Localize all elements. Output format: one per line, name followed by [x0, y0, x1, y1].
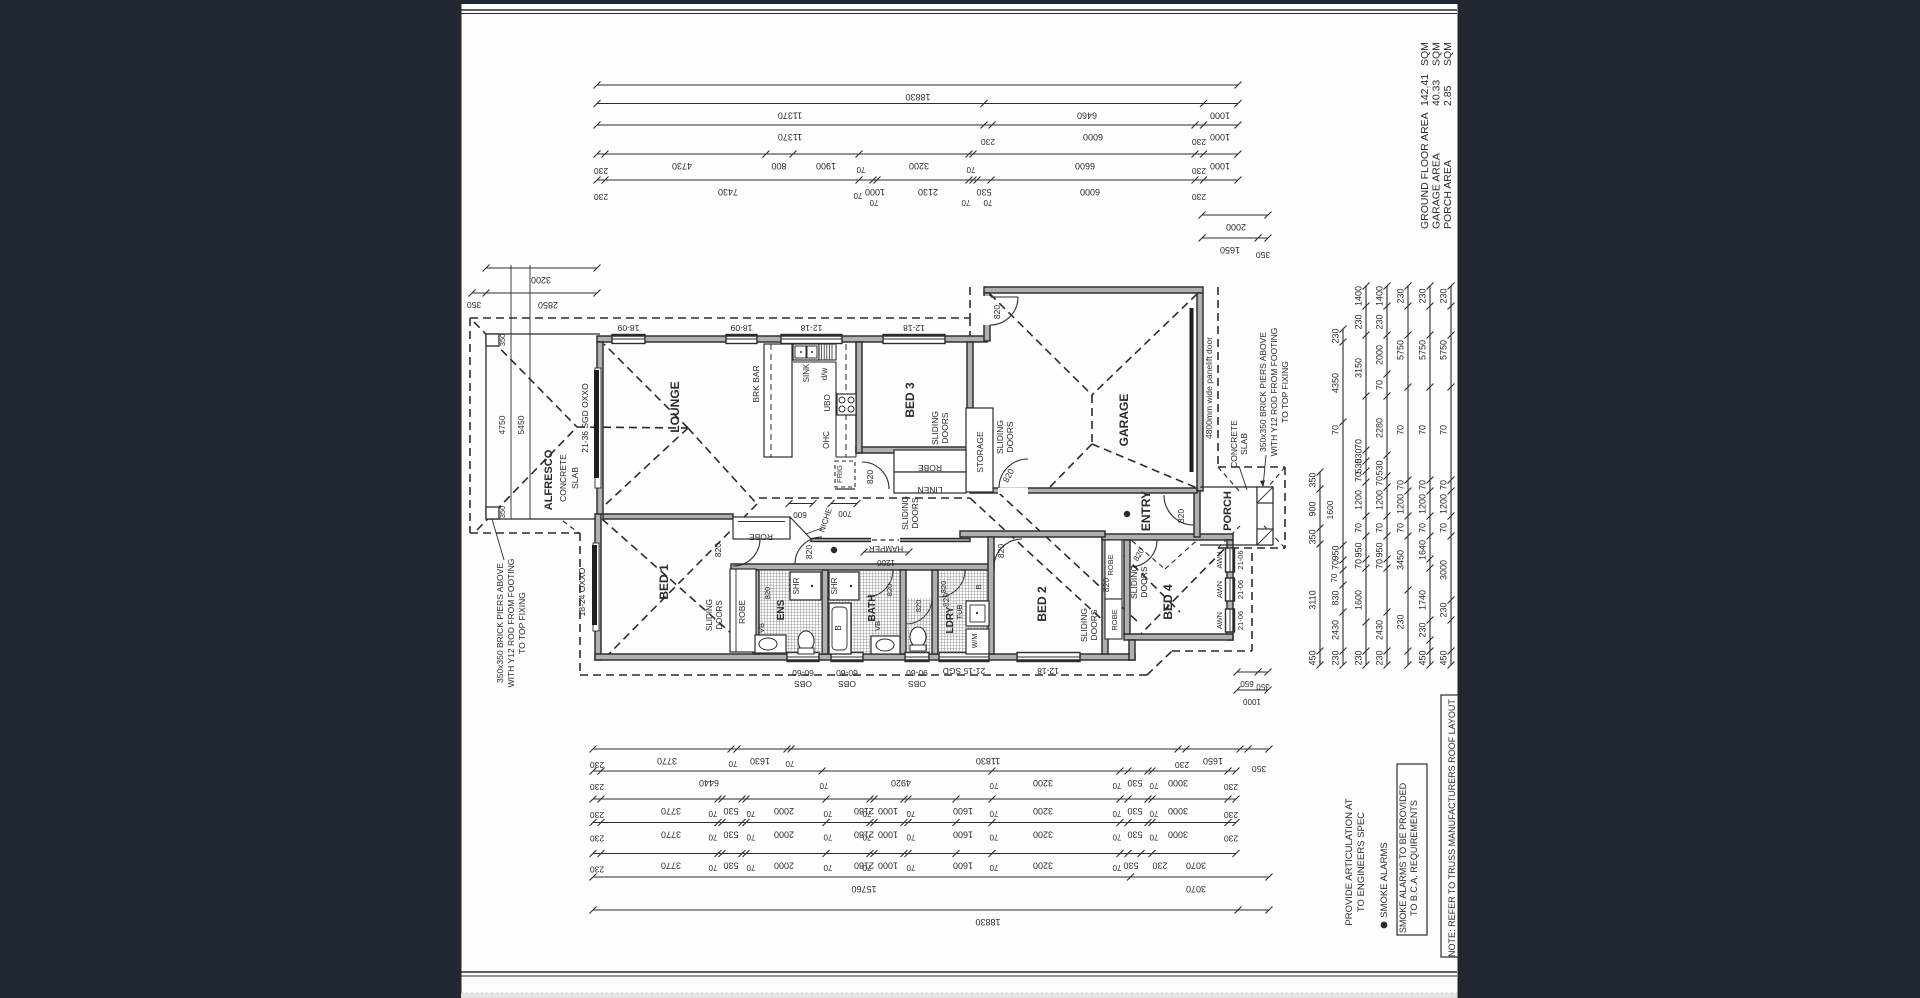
svg-text:530: 530 — [1127, 778, 1142, 788]
svg-text:3110: 3110 — [1308, 590, 1318, 609]
svg-text:12-18: 12-18 — [800, 323, 822, 333]
svg-text:70: 70 — [1354, 439, 1364, 449]
entry east wall — [1194, 491, 1200, 537]
svg-text:12-18: 12-18 — [1037, 666, 1059, 676]
bed4 door 820 — [1130, 540, 1157, 567]
eave outline dashed — [470, 317, 970, 319]
svg-text:230: 230 — [1331, 328, 1341, 343]
hamper dim — [864, 551, 909, 553]
svg-text:1600: 1600 — [1354, 590, 1364, 610]
svg-text:12-18: 12-18 — [903, 323, 925, 333]
svg-text:1400: 1400 — [1375, 286, 1385, 306]
bed2 door 820 — [994, 539, 1022, 567]
svg-text:15760: 15760 — [851, 884, 876, 894]
bed3 door 820 — [862, 462, 889, 489]
svg-text:3000: 3000 — [1168, 830, 1188, 840]
svg-text:3770: 3770 — [661, 806, 681, 816]
svg-text:820: 820 — [885, 584, 894, 597]
svg-text:OHC: OHC — [822, 431, 831, 449]
svg-text:70: 70 — [1439, 480, 1449, 490]
svg-text:230: 230 — [1418, 622, 1428, 637]
west wall sliding door 21-36 SGD OXXO — [595, 368, 601, 488]
hall niche dims — [789, 503, 813, 505]
svg-text:230: 230 — [1375, 314, 1385, 329]
svg-text:2000: 2000 — [1226, 222, 1246, 232]
svg-text:4800mm wide panelift door: 4800mm wide panelift door — [1204, 337, 1214, 439]
svg-text:230: 230 — [1375, 650, 1385, 665]
svg-text:LINEN: LINEN — [917, 485, 942, 495]
svg-text:70: 70 — [906, 833, 915, 842]
svg-text:70: 70 — [906, 863, 915, 872]
svg-text:230: 230 — [1152, 861, 1167, 871]
svg-text:5750: 5750 — [1396, 340, 1406, 360]
svg-text:820: 820 — [763, 587, 772, 600]
svg-text:70: 70 — [983, 198, 992, 207]
svg-text:70: 70 — [1330, 573, 1339, 582]
svg-text:VB: VB — [757, 623, 766, 633]
svg-text:230: 230 — [981, 137, 995, 147]
svg-text:3150: 3150 — [1354, 358, 1364, 378]
svg-text:21-06: 21-06 — [1236, 611, 1245, 630]
svg-text:OBS: OBS — [794, 679, 812, 689]
porch eave dashed — [1218, 466, 1285, 468]
svg-text:350: 350 — [467, 300, 481, 310]
svg-text:PORCH: PORCH — [1222, 491, 1234, 531]
bed4 roof dashed — [1105, 537, 1180, 612]
svg-text:230: 230 — [1331, 650, 1341, 665]
svg-text:21-06: 21-06 — [1236, 580, 1245, 599]
svg-text:SQM: SQM — [1419, 42, 1431, 66]
svg-text:230: 230 — [590, 834, 604, 844]
roof ridge and hips dashed — [474, 322, 577, 427]
svg-text:820: 820 — [1101, 578, 1111, 592]
svg-text:1000: 1000 — [1243, 697, 1261, 706]
svg-text:1600: 1600 — [953, 830, 973, 840]
svg-text:4730: 4730 — [672, 161, 692, 171]
svg-text:70: 70 — [823, 809, 832, 818]
svg-text:B: B — [834, 625, 843, 630]
svg-text:LOUNGE: LOUNGE — [668, 381, 682, 432]
svg-text:230: 230 — [1396, 614, 1406, 629]
svg-text:230: 230 — [1224, 834, 1238, 844]
svg-text:21-36 SGD OXXO: 21-36 SGD OXXO — [580, 383, 590, 453]
svg-text:70: 70 — [989, 863, 998, 872]
svg-text:70: 70 — [1396, 523, 1406, 533]
svg-text:1200: 1200 — [1396, 494, 1406, 514]
svg-text:800: 800 — [771, 161, 786, 171]
svg-text:TO TOP FIXING: TO TOP FIXING — [1280, 361, 1290, 423]
svg-text:70: 70 — [862, 809, 871, 818]
sink counter — [793, 361, 836, 363]
side bars overlay — [0, 0, 461, 998]
hall south wall / bath north wall — [731, 564, 994, 570]
north wall windows — [612, 335, 645, 344]
south wall step — [1129, 640, 1135, 660]
svg-text:450: 450 — [1418, 650, 1428, 665]
svg-text:70: 70 — [728, 759, 737, 768]
svg-text:70: 70 — [1396, 480, 1406, 490]
svg-text:SLAB: SLAB — [570, 467, 580, 489]
svg-text:SHR: SHR — [830, 577, 839, 594]
svg-text:820: 820 — [865, 470, 875, 484]
svg-text:230: 230 — [1354, 650, 1364, 665]
svg-text:3000: 3000 — [1168, 778, 1188, 788]
wc pan — [910, 627, 926, 647]
alfresco top dims — [486, 267, 597, 269]
svg-text:600: 600 — [793, 510, 807, 519]
svg-text:3200: 3200 — [531, 275, 551, 285]
svg-text:230: 230 — [1192, 192, 1206, 202]
bed2 east robe wall — [1102, 540, 1108, 654]
svg-text:ENTRY: ENTRY — [1139, 491, 1153, 531]
svg-text:820: 820 — [713, 543, 723, 557]
svg-text:40.33: 40.33 — [1431, 80, 1443, 106]
svg-text:SLIDING: SLIDING — [995, 420, 1005, 454]
east bench with cooktop — [835, 362, 837, 457]
svg-text:70: 70 — [853, 191, 862, 200]
svg-text:820: 820 — [914, 600, 923, 613]
right dimension block — [1319, 472, 1321, 665]
bed4 south wall — [1124, 634, 1233, 640]
svg-text:70: 70 — [823, 863, 832, 872]
svg-text:820: 820 — [939, 581, 948, 594]
svg-text:1200: 1200 — [1375, 490, 1385, 510]
svg-text:70: 70 — [1354, 559, 1364, 569]
svg-text:B: B — [974, 584, 983, 589]
svg-text:1000: 1000 — [1210, 161, 1230, 171]
svg-text:STORAGE: STORAGE — [975, 431, 985, 473]
svg-text:UBO: UBO — [823, 394, 832, 411]
svg-text:ROBE: ROBE — [918, 463, 942, 473]
garage east wall — [1197, 293, 1203, 491]
svg-text:5750: 5750 — [1439, 340, 1449, 360]
svg-text:LDRY: LDRY — [945, 606, 956, 633]
bed1 west wall — [595, 514, 601, 660]
svg-text:DOORS: DOORS — [910, 497, 920, 529]
svg-text:530: 530 — [723, 830, 738, 840]
svg-text:70: 70 — [708, 809, 717, 818]
svg-text:BED 2: BED 2 — [1035, 586, 1049, 622]
svg-text:DOORS: DOORS — [940, 412, 950, 444]
svg-text:230: 230 — [594, 192, 608, 202]
svg-text:142.41: 142.41 — [1419, 74, 1431, 106]
svg-text:BRK BAR: BRK BAR — [751, 365, 761, 402]
bed3 west wall — [856, 342, 862, 453]
bath vanity — [871, 636, 900, 654]
svg-text:SINK: SINK — [802, 363, 811, 382]
svg-text:230: 230 — [590, 810, 604, 820]
smoke alarm hall — [831, 547, 837, 553]
svg-text:6600: 6600 — [1075, 161, 1095, 171]
svg-text:AWN: AWN — [1215, 551, 1224, 568]
ldry tub — [966, 601, 989, 626]
svg-text:2430: 2430 — [1375, 620, 1385, 640]
svg-text:6000: 6000 — [1083, 132, 1103, 142]
svg-text:70: 70 — [785, 759, 794, 768]
svg-text:1900: 1900 — [816, 161, 836, 171]
svg-text:BED 4: BED 4 — [1161, 584, 1175, 620]
porch slab and piers — [1200, 486, 1273, 488]
svg-text:70: 70 — [1396, 425, 1406, 435]
bath door 820 — [866, 570, 893, 597]
svg-text:350x350 BRICK PIERS ABOVE: 350x350 BRICK PIERS ABOVE — [1258, 332, 1268, 452]
svg-text:70: 70 — [746, 809, 755, 818]
svg-text:3450: 3450 — [1396, 550, 1406, 570]
svg-text:d/w: d/w — [820, 368, 829, 381]
svg-text:2000: 2000 — [774, 830, 794, 840]
svg-text:70: 70 — [746, 833, 755, 842]
main north wall — [597, 336, 987, 342]
svg-text:2430: 2430 — [1331, 620, 1341, 640]
svg-text:70: 70 — [989, 833, 998, 842]
svg-text:5450: 5450 — [516, 415, 526, 434]
svg-text:TO B.C.A. REQUIREMENTS: TO B.C.A. REQUIREMENTS — [1409, 800, 1419, 916]
svg-text:GARAGE AREA: GARAGE AREA — [1431, 153, 1443, 229]
svg-text:650: 650 — [1240, 679, 1254, 688]
svg-text:830: 830 — [1331, 590, 1341, 605]
svg-text:1650: 1650 — [1220, 245, 1240, 255]
svg-text:70: 70 — [1418, 480, 1428, 490]
bottom dimension block — [593, 748, 1269, 750]
svg-text:4350: 4350 — [1331, 373, 1341, 393]
ens vanity — [755, 635, 786, 653]
smoke alarm box note — [1397, 764, 1427, 935]
laundry sliding door 21-15 — [939, 653, 989, 662]
svg-text:70: 70 — [1112, 833, 1121, 842]
svg-text:70: 70 — [906, 809, 915, 818]
svg-text:950: 950 — [1354, 542, 1364, 557]
svg-text:70: 70 — [1149, 833, 1158, 842]
svg-text:530: 530 — [1127, 830, 1142, 840]
svg-text:21-15 SGD: 21-15 SGD — [943, 666, 986, 676]
svg-text:230: 230 — [1396, 288, 1406, 303]
bed1 robe box north side — [733, 517, 790, 539]
svg-text:350: 350 — [1308, 529, 1318, 544]
svg-text:ROBE: ROBE — [737, 600, 747, 624]
alfresco pier NW — [486, 334, 499, 346]
svg-text:TO TOP FIXING: TO TOP FIXING — [517, 592, 527, 654]
hall lower wall east of kitchen — [811, 539, 970, 542]
svg-text:BED 1: BED 1 — [657, 564, 671, 600]
svg-text:1000: 1000 — [878, 830, 898, 840]
svg-text:1000: 1000 — [1210, 132, 1230, 142]
svg-text:530: 530 — [1127, 806, 1142, 816]
svg-text:DOORS: DOORS — [715, 600, 724, 629]
svg-text:90-60: 90-60 — [906, 668, 928, 678]
svg-text:7430: 7430 — [718, 187, 738, 197]
svg-text:530: 530 — [1354, 458, 1364, 473]
svg-text:WITH Y12 ROD FROM FOOTING: WITH Y12 ROD FROM FOOTING — [1269, 328, 1279, 457]
svg-text:WITH Y12 ROD FROM FOOTING: WITH Y12 ROD FROM FOOTING — [506, 559, 516, 688]
svg-text:530: 530 — [723, 806, 738, 816]
svg-text:ENS: ENS — [776, 599, 787, 620]
svg-text:230: 230 — [590, 865, 604, 875]
south wall — [595, 654, 1135, 660]
svg-text:3200: 3200 — [909, 161, 929, 171]
svg-text:350x350 BRICK PIERS ABOVE: 350x350 BRICK PIERS ABOVE — [495, 563, 505, 683]
svg-text:2850: 2850 — [538, 300, 558, 310]
svg-text:TUB: TUB — [955, 605, 964, 620]
entry roof dashed — [1125, 535, 1165, 569]
svg-text:OBS: OBS — [908, 679, 926, 689]
ldry wm — [966, 629, 989, 654]
garage roof dashed — [990, 294, 1092, 395]
niche hatch — [790, 517, 811, 539]
svg-text:HAMPER: HAMPER — [869, 544, 903, 553]
svg-text:700: 700 — [838, 509, 852, 518]
svg-text:230: 230 — [1418, 288, 1428, 303]
svg-text:18830: 18830 — [975, 917, 1000, 927]
garage panelift door — [1190, 308, 1194, 472]
svg-text:530: 530 — [723, 861, 738, 871]
ldry door 820 — [938, 570, 965, 597]
svg-text:4750: 4750 — [497, 415, 507, 434]
svg-text:ROBE: ROBE — [1110, 609, 1119, 630]
bed2 south window 12-18 — [1017, 653, 1080, 662]
svg-text:18-24 OXXO: 18-24 OXXO — [577, 567, 587, 616]
svg-text:TO ENGINEERS SPEC: TO ENGINEERS SPEC — [1356, 812, 1367, 912]
svg-text:230: 230 — [590, 782, 604, 792]
ens wc pan — [798, 631, 814, 651]
svg-text:230: 230 — [1192, 166, 1206, 176]
svg-text:70: 70 — [1331, 425, 1341, 435]
svg-text:70: 70 — [1331, 560, 1341, 570]
svg-text:820: 820 — [996, 544, 1006, 558]
svg-text:11830: 11830 — [976, 756, 1000, 766]
svg-text:3000: 3000 — [1439, 560, 1449, 580]
wc door 820 — [906, 598, 932, 624]
smoke alarms note — [1381, 922, 1388, 929]
svg-text:2.85: 2.85 — [1442, 85, 1454, 106]
svg-text:2000: 2000 — [1375, 345, 1385, 365]
svg-text:70: 70 — [1439, 523, 1449, 533]
svg-text:NOTE: REFER TO TRUSS MANUFACTU: NOTE: REFER TO TRUSS MANUFACTURERS ROOF … — [1447, 699, 1457, 957]
svg-text:SLAB: SLAB — [1239, 433, 1249, 455]
svg-text:SHR: SHR — [792, 577, 801, 594]
svg-text:SLIDING: SLIDING — [705, 599, 714, 631]
svg-text:ALFRESCO: ALFRESCO — [543, 449, 555, 510]
svg-text:70: 70 — [708, 833, 717, 842]
svg-text:1630: 1630 — [750, 756, 770, 766]
svg-text:21-06: 21-06 — [1236, 550, 1245, 569]
svg-text:OBS: OBS — [838, 679, 856, 689]
lounge-bed1 wall — [603, 514, 733, 519]
svg-text:11370: 11370 — [778, 111, 802, 121]
svg-text:70: 70 — [862, 833, 871, 842]
svg-text:CONCRETE: CONCRETE — [558, 454, 568, 502]
svg-text:820: 820 — [1176, 509, 1186, 523]
drainer hatch — [819, 344, 836, 360]
svg-text:530: 530 — [1375, 460, 1385, 475]
svg-text:SQM: SQM — [1442, 42, 1454, 66]
svg-text:230: 230 — [1354, 314, 1364, 329]
svg-text:230: 230 — [594, 166, 608, 176]
svg-text:18830: 18830 — [905, 92, 930, 102]
svg-text:1200: 1200 — [877, 558, 895, 567]
svg-text:3200: 3200 — [1033, 806, 1053, 816]
svg-text:70: 70 — [1112, 781, 1121, 790]
main west wall lounge — [597, 342, 603, 514]
svg-text:60-60: 60-60 — [792, 668, 814, 678]
svg-text:70: 70 — [1418, 425, 1428, 435]
svg-text:6440: 6440 — [699, 778, 719, 788]
svg-text:230: 230 — [1175, 760, 1189, 770]
svg-text:70: 70 — [989, 781, 998, 790]
ens door 820 — [795, 537, 822, 564]
storage box — [966, 408, 993, 492]
svg-text:1000: 1000 — [1210, 111, 1230, 121]
svg-text:350: 350 — [1308, 472, 1318, 487]
svg-text:1000: 1000 — [865, 187, 885, 197]
svg-text:1650: 1650 — [1203, 756, 1223, 766]
svg-text:950: 950 — [1331, 545, 1341, 560]
svg-text:3200: 3200 — [1033, 830, 1053, 840]
svg-text:70: 70 — [1149, 781, 1158, 790]
svg-text:1640: 1640 — [1418, 540, 1428, 560]
bed4 north wall — [1102, 534, 1233, 540]
svg-text:PORCH AREA: PORCH AREA — [1442, 160, 1454, 229]
ens tiles — [759, 570, 822, 654]
bath tiles — [828, 571, 900, 654]
garage west wall upper — [984, 293, 990, 341]
svg-text:1000: 1000 — [878, 861, 898, 871]
alfresco slab — [486, 333, 600, 335]
svg-text:SMOKE ALARMS: SMOKE ALARMS — [1379, 842, 1390, 918]
south wall windows — [787, 653, 819, 662]
svg-text:CONCRETE: CONCRETE — [1229, 420, 1239, 468]
svg-text:70: 70 — [1375, 559, 1385, 569]
svg-text:820: 820 — [992, 305, 1002, 319]
svg-text:4920: 4920 — [891, 778, 911, 788]
svg-text:60-60: 60-60 — [836, 668, 858, 678]
svg-text:230: 230 — [590, 760, 604, 770]
svg-text:70: 70 — [1375, 523, 1385, 533]
svg-text:70: 70 — [1112, 863, 1121, 872]
svg-text:350: 350 — [498, 506, 507, 519]
svg-text:350: 350 — [1256, 250, 1270, 260]
svg-text:SLIDING: SLIDING — [1129, 565, 1139, 599]
ens shower — [790, 572, 821, 600]
bed3 robe linen boxes — [894, 450, 966, 472]
svg-text:70: 70 — [1439, 425, 1449, 435]
svg-text:6460: 6460 — [1077, 111, 1097, 121]
garage west door 820 — [983, 296, 991, 325]
svg-text:2000: 2000 — [774, 806, 794, 816]
fridge dashed — [835, 461, 855, 487]
bed4 east awning windows — [1226, 548, 1235, 572]
page border bottom double line — [461, 971, 1457, 973]
svg-text:BATH: BATH — [867, 594, 878, 621]
svg-text:70: 70 — [1112, 809, 1121, 818]
bed4 west wall — [1124, 540, 1130, 634]
svg-text:70: 70 — [1375, 380, 1385, 390]
svg-text:SLIDING: SLIDING — [930, 411, 940, 445]
svg-text:70: 70 — [1354, 523, 1364, 533]
svg-text:SLIDING: SLIDING — [1079, 608, 1089, 642]
svg-text:820: 820 — [804, 545, 814, 559]
svg-text:1600: 1600 — [1325, 500, 1335, 519]
svg-text:1200: 1200 — [1418, 494, 1428, 514]
bed3 south wall — [856, 447, 973, 453]
bed1 door 820 — [733, 539, 760, 566]
svg-text:70: 70 — [819, 781, 828, 790]
svg-text:1600: 1600 — [953, 806, 973, 816]
svg-text:70: 70 — [869, 198, 878, 207]
svg-text:2280: 2280 — [1375, 418, 1385, 438]
svg-text:70: 70 — [961, 198, 970, 207]
alfresco internal dim lines — [510, 265, 512, 519]
svg-text:350: 350 — [498, 334, 507, 347]
